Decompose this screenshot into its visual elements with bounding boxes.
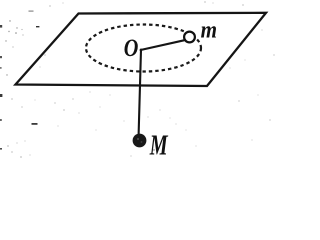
scan noise speckles — [0, 1, 275, 157]
plane (parallelogram table surface) — [16, 13, 267, 86]
label O (center of circle) — [124, 34, 139, 61]
mass m (small open circle on plane) — [184, 32, 195, 43]
svg-text:O: O — [124, 34, 139, 61]
label M — [149, 130, 169, 161]
string from O to mass m — [141, 40, 184, 50]
label m — [201, 16, 217, 43]
dashed circular path on plane — [86, 25, 201, 72]
svg-text:m: m — [201, 16, 217, 43]
svg-text:M: M — [149, 130, 169, 161]
mass M (filled ball hanging below) — [133, 134, 147, 148]
vertical string through hole at O down to M — [139, 50, 141, 136]
